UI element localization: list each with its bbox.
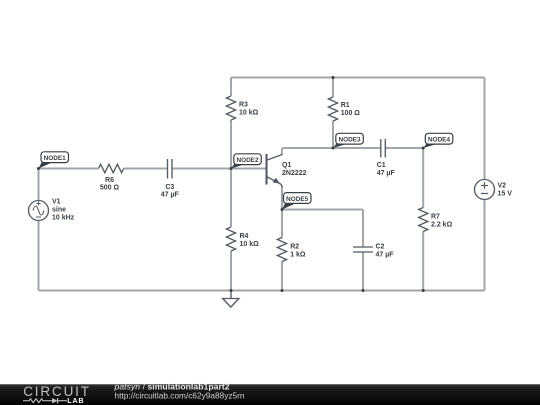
svg-text:NODE4: NODE4: [428, 137, 450, 144]
svg-text:R4: R4: [240, 233, 249, 240]
svg-text:47 µF: 47 µF: [377, 170, 396, 177]
svg-text:500 Ω: 500 Ω: [100, 185, 120, 192]
svg-text:http://circuitlab.com/c62y9a88: http://circuitlab.com/c62y9a88yz5rn: [115, 391, 245, 401]
svg-text:R7: R7: [431, 214, 440, 221]
svg-text:1 kΩ: 1 kΩ: [290, 251, 306, 258]
svg-text:100 Ω: 100 Ω: [341, 110, 361, 117]
svg-text:2.2 kΩ: 2.2 kΩ: [431, 222, 453, 229]
svg-text:R2: R2: [290, 244, 299, 251]
svg-text:C1: C1: [377, 162, 386, 169]
svg-text:R3: R3: [239, 102, 248, 109]
svg-text:NODE3: NODE3: [338, 137, 360, 144]
svg-text:V2: V2: [498, 183, 507, 190]
svg-text:R1: R1: [341, 102, 350, 109]
svg-text:10 kΩ: 10 kΩ: [239, 110, 259, 117]
svg-text:47 µF: 47 µF: [161, 192, 180, 199]
svg-text:10 kHz: 10 kHz: [52, 215, 75, 222]
svg-text:C2: C2: [376, 244, 385, 251]
svg-text:47 µF: 47 µF: [376, 251, 395, 258]
svg-text:Q1: Q1: [282, 162, 291, 169]
svg-text:sine: sine: [52, 207, 66, 214]
svg-text:V1: V1: [52, 199, 61, 206]
svg-text:NODE2: NODE2: [236, 157, 258, 164]
svg-text:LAB: LAB: [67, 396, 84, 405]
svg-text:10 kΩ: 10 kΩ: [240, 241, 260, 248]
svg-text:15 V: 15 V: [498, 191, 513, 198]
svg-text:R6: R6: [105, 177, 114, 184]
svg-text:NODE1: NODE1: [44, 155, 66, 162]
svg-text:NODE5: NODE5: [286, 196, 308, 203]
svg-text:2N2222: 2N2222: [282, 170, 307, 177]
svg-text:C3: C3: [165, 184, 174, 191]
